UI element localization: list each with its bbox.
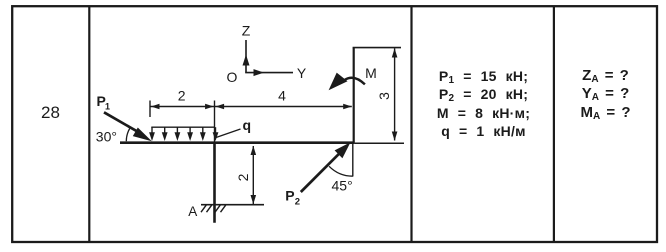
dim 4 right arrowhead [343, 104, 352, 109]
30 deg arc [126, 129, 129, 142]
45 deg arc [329, 166, 353, 176]
lower 2 bottom arrowhead [251, 195, 257, 204]
dim line 3 [394, 48, 396, 140]
svg-text:A: A [188, 204, 197, 219]
moment arrowhead [329, 73, 348, 91]
hatching [201, 205, 226, 213]
q pointer line [216, 129, 241, 138]
P1 arrowhead [133, 128, 152, 142]
cell 3 given values [413, 67, 555, 141]
divider col1/col2 [88, 6, 90, 242]
dim 4 left arrowhead [216, 104, 225, 109]
load arrows [149, 127, 218, 141]
extension tick left [149, 101, 151, 118]
axis Z line [245, 40, 247, 73]
dim 2 right arrowhead [205, 104, 214, 109]
divider col2/col3 [410, 6, 412, 242]
45 deg reference line [352, 143, 354, 177]
support column [213, 142, 216, 223]
dim line lower 2 [252, 146, 254, 204]
svg-text:1: 1 [105, 102, 110, 112]
vertical member [353, 48, 355, 143]
moment arc [345, 78, 365, 85]
svg-text:q: q [243, 117, 252, 133]
svg-text:3: 3 [376, 92, 392, 100]
svg-text:Z: Z [242, 23, 251, 39]
dim 3 top arrowhead [392, 48, 398, 57]
load top bar [151, 126, 214, 128]
svg-text:P: P [285, 188, 294, 204]
axis Z arrowhead [243, 55, 250, 66]
beam right extension line [355, 142, 404, 144]
svg-text:45°: 45° [332, 178, 353, 194]
divider col3/col4 [553, 6, 555, 242]
dim line 2 [150, 106, 215, 108]
dim 3 bottom arrowhead [392, 132, 398, 141]
svg-text:30°: 30° [96, 128, 117, 144]
P1 shaft [104, 112, 138, 131]
extension tick middle [214, 101, 216, 142]
svg-text:M: M [365, 65, 377, 81]
top extension line [353, 47, 401, 49]
cell 1 number 28 [12, 104, 90, 121]
svg-text:2: 2 [295, 197, 300, 208]
axis Y arrowhead [254, 69, 265, 76]
svg-text:4: 4 [278, 88, 286, 104]
cell 4 questions [554, 67, 658, 123]
svg-text:Y: Y [297, 65, 307, 81]
ground line [201, 204, 264, 206]
lower 2 top arrowhead [251, 146, 257, 155]
P2 shaft [301, 153, 340, 192]
svg-text:2: 2 [235, 173, 251, 181]
dim line 4 [215, 106, 352, 108]
dim 2 left arrowhead [151, 104, 160, 109]
svg-text:O: O [227, 69, 238, 85]
beam horizontal [120, 141, 355, 144]
svg-text:2: 2 [178, 88, 186, 104]
P2 arrowhead [335, 142, 351, 158]
axis Y line [245, 72, 293, 74]
